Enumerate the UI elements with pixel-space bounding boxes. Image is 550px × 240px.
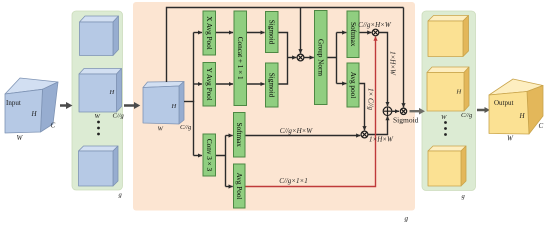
right cube 3 — [428, 146, 466, 186]
left cube 2 — [79, 69, 122, 113]
wire bus to Y Avg Pool — [194, 83, 203, 85]
wire Avg pool1 to mul4 — [359, 84, 365, 131]
wire red Avg Pool2 to mul2 — [245, 37, 376, 187]
wire join to mul1 — [288, 57, 297, 59]
wire bracket to Softmax2 — [226, 135, 233, 137]
svg-text:W: W — [441, 114, 447, 121]
svg-text:1×H×W: 1×H×W — [369, 136, 394, 144]
svg-text:W: W — [95, 113, 101, 120]
output cube — [489, 79, 543, 134]
multiply node mul4 — [361, 131, 368, 138]
left cube 3 — [79, 146, 119, 186]
svg-text:H: H — [456, 89, 462, 96]
svg-text:C//g: C//g — [113, 113, 125, 120]
wire Softmax2 to mul4 — [245, 135, 360, 137]
multiply node mul2 — [372, 29, 379, 36]
wire add to mul3 — [392, 110, 399, 112]
svg-text:W: W — [158, 126, 164, 133]
wire sigmoid join — [278, 33, 288, 85]
svg-text:g: g — [119, 192, 123, 199]
svg-text:Concat + 1 × 1: Concat + 1 × 1 — [236, 37, 244, 80]
block arrow module to right panel — [410, 108, 426, 115]
left group panel — [72, 11, 123, 190]
svg-text:X Avg Pool: X Avg Pool — [205, 16, 213, 49]
svg-text:Group Norm: Group Norm — [317, 39, 325, 76]
box Sigmoid2 — [266, 63, 279, 107]
block arrow input to left panel — [60, 102, 73, 109]
wire bus vertical — [193, 33, 195, 156]
block arrow left panel to module — [124, 102, 140, 109]
svg-text:Avg Pool: Avg Pool — [235, 173, 243, 200]
box Conv 3x3 — [203, 134, 216, 176]
svg-text:g: g — [462, 193, 466, 200]
svg-text:Softmax: Softmax — [349, 22, 357, 47]
svg-text:C//g×1×1: C//g×1×1 — [279, 177, 308, 185]
svg-text:C//g: C//g — [461, 112, 473, 119]
box Sigmoid1 — [266, 12, 279, 53]
add node — [383, 107, 392, 116]
input cube — [5, 78, 58, 133]
wire X pool to Concat — [216, 32, 234, 34]
wire bracket to Avg Pool2 — [226, 186, 233, 188]
svg-text:H: H — [109, 89, 115, 96]
wire bus to X Avg Pool — [194, 32, 203, 34]
box Group Norm — [315, 11, 328, 105]
box Y Avg Pool — [203, 63, 216, 107]
right group panel — [422, 11, 476, 191]
left cube 1 — [80, 16, 119, 56]
wire mul4 to add — [368, 116, 388, 134]
EMA module panel — [133, 2, 415, 211]
svg-text:Sigmoid: Sigmoid — [393, 116, 419, 125]
svg-text:Avg pool: Avg pool — [349, 72, 357, 98]
wire bus to Conv — [194, 155, 203, 157]
wire top skip — [167, 8, 404, 83]
svg-text:C//g×H×W: C//g×H×W — [358, 21, 392, 29]
box Avg Pool2 — [234, 164, 246, 208]
dots (right panel) — [444, 121, 447, 124]
svg-text:Input: Input — [6, 99, 21, 107]
right cube 1 — [428, 16, 469, 57]
svg-text:Conv 3 × 3: Conv 3 × 3 — [205, 139, 213, 172]
svg-text:C: C — [539, 122, 544, 130]
svg-text:Softmax: Softmax — [235, 123, 243, 148]
wire skip drop to mul3 — [403, 8, 405, 108]
wire bracket to Softmax1 — [337, 32, 347, 34]
svg-text:g: g — [405, 215, 409, 223]
svg-text:H: H — [31, 110, 38, 118]
box Avg pool1 — [347, 63, 359, 107]
wire cube to bus — [184, 101, 194, 103]
wire Concat to Sigmoid2 — [247, 83, 265, 85]
svg-text:Y Avg Pool: Y Avg Pool — [205, 68, 213, 101]
wire conv out bracket — [216, 136, 226, 187]
box Concat + 1x1 — [234, 11, 247, 106]
wire bracket to Avg pool1 — [337, 83, 347, 85]
svg-text:1× C//g: 1× C//g — [366, 88, 374, 111]
box X Avg Pool — [203, 11, 216, 55]
svg-text:H: H — [519, 112, 526, 120]
wire Softmax1 to mul2 — [359, 32, 371, 34]
box Softmax1 — [347, 11, 359, 58]
box Softmax2 — [234, 113, 246, 158]
multiply node mul3 — [400, 108, 406, 114]
svg-text:Sigmoid: Sigmoid — [268, 73, 276, 98]
wire skip drop to mul1 — [300, 8, 302, 54]
wire mul2 down to add — [379, 33, 388, 107]
wire GN out bracket — [327, 33, 337, 84]
wire mul1 to Group Norm — [304, 57, 314, 59]
svg-text:C: C — [51, 122, 56, 130]
svg-text:C//g: C//g — [180, 124, 192, 131]
svg-text:1×H×W: 1×H×W — [389, 51, 397, 76]
multiply node mul1 — [297, 54, 304, 61]
svg-text:H: H — [171, 103, 177, 110]
module cube — [143, 82, 184, 125]
wire Y pool to Concat — [216, 83, 234, 85]
right cube 2 — [427, 67, 469, 111]
svg-text:W: W — [17, 134, 24, 142]
svg-text:C//g×H×W: C//g×H×W — [280, 127, 314, 135]
svg-text:Sigmoid: Sigmoid — [268, 20, 276, 45]
svg-text:Output: Output — [494, 99, 514, 107]
svg-text:W: W — [507, 135, 514, 143]
dots (left panel) — [97, 121, 100, 124]
block arrow right panel to output — [477, 107, 490, 113]
wire Concat to Sigmoid1 — [247, 32, 265, 34]
